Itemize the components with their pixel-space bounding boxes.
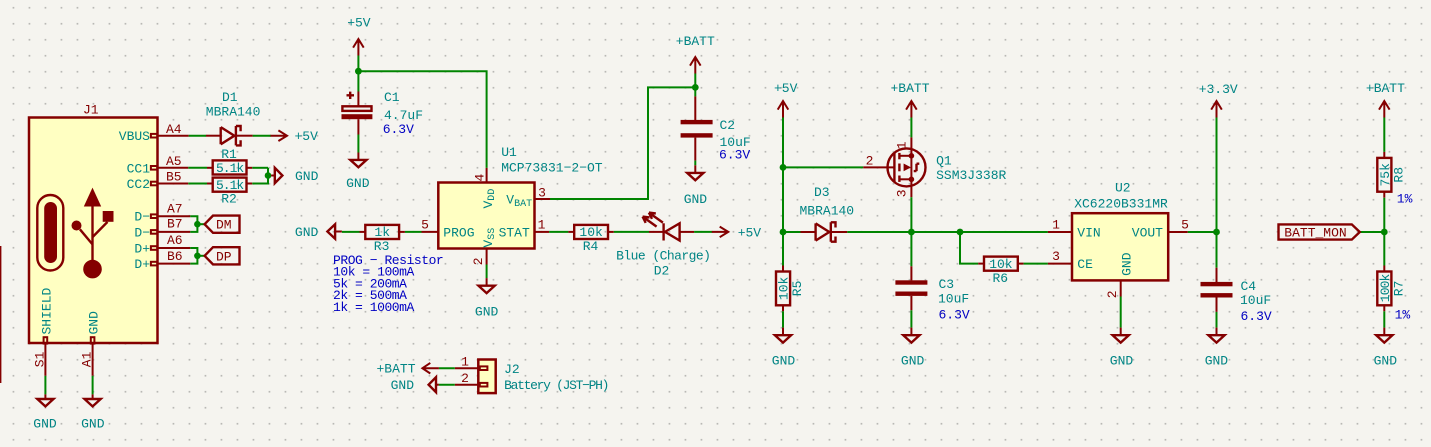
svg-text:GND: GND — [295, 169, 319, 184]
wire Q1 source to rail — [910, 197, 912, 232]
svg-text:R4: R4 — [583, 239, 599, 254]
svg-text:VBUS: VBUS — [119, 129, 150, 144]
resistor R6 10k — [978, 257, 1023, 286]
svg-text:DM: DM — [216, 218, 232, 233]
power +BATT (above R8) — [1366, 81, 1405, 117]
wire A1 to ground — [92, 376, 94, 395]
svg-text:+BATT: +BATT — [376, 362, 415, 377]
svg-text:R2: R2 — [221, 192, 237, 207]
svg-text:R3: R3 — [374, 239, 390, 254]
power +5V (right of D1) — [271, 129, 319, 144]
wire D1 to +5V — [253, 135, 271, 137]
svg-text:PROG: PROG — [443, 225, 474, 240]
svg-text:10uF: 10uF — [938, 292, 969, 307]
pin 1 STAT — [535, 231, 550, 233]
power +3.3V — [1199, 82, 1238, 117]
global label DM — [205, 216, 240, 233]
hierarchical label BATT_MON — [1279, 224, 1360, 240]
svg-text:C1: C1 — [384, 90, 400, 105]
svg-text:A4: A4 — [166, 122, 182, 137]
svg-text:GND: GND — [684, 192, 708, 207]
pin 2 — [480, 383, 488, 387]
wire R3 to U1 PROG — [405, 231, 422, 233]
svg-text:+5V: +5V — [295, 129, 319, 144]
power +5V (above D3) — [774, 81, 798, 117]
svg-text:C3: C3 — [939, 277, 955, 292]
junction gate — [780, 164, 787, 171]
wire junction to C4 — [1216, 232, 1218, 268]
svg-text:+5V: +5V — [774, 81, 798, 96]
svg-text:C4: C4 — [1241, 279, 1257, 294]
wire J2 pin1 — [439, 367, 455, 369]
wire +5V down to junction — [357, 56, 359, 92]
svg-text:6.3V: 6.3V — [1241, 309, 1272, 324]
svg-text:D3: D3 — [814, 185, 830, 200]
svg-text:Blue (Charge): Blue (Charge) — [616, 248, 710, 263]
wire C4 to ground — [1216, 312, 1218, 328]
svg-text:XC6220B331MR: XC6220B331MR — [1074, 196, 1168, 211]
svg-text:1: 1 — [538, 217, 546, 232]
svg-text:MBRA140: MBRA140 — [800, 203, 855, 218]
resistor R2 5.1k — [207, 178, 252, 207]
pin SHIELD S1 — [44, 337, 48, 343]
resistor R4 10k — [568, 225, 613, 254]
junction C2/+BATT — [692, 84, 699, 91]
ground (left of R3, PROG net) — [295, 224, 342, 240]
wire rail to U1 VIN — [960, 231, 1048, 233]
wire U1 STAT to R4 — [549, 231, 568, 233]
svg-text:A1: A1 — [80, 351, 95, 367]
svg-text:2: 2 — [471, 257, 486, 265]
pin D+ A6 — [151, 246, 157, 250]
svg-text:3: 3 — [1052, 249, 1060, 264]
svg-text:10k: 10k — [989, 257, 1013, 272]
wire R5 to ground — [782, 311, 784, 327]
junction C1/+5V — [355, 68, 362, 75]
svg-text:10uF: 10uF — [1240, 293, 1271, 308]
svg-text:D+: D+ — [134, 257, 150, 272]
wire D3 to Q1/C3 — [847, 231, 960, 233]
svg-text:MBRA140: MBRA140 — [206, 104, 261, 119]
svg-text:CC2: CC2 — [127, 177, 150, 192]
svg-text:S1: S1 — [32, 351, 47, 367]
wire A6 to DP — [190, 248, 197, 264]
pin D+ B6 — [151, 262, 157, 266]
svg-text:GND: GND — [81, 417, 105, 432]
wire DM stub — [197, 223, 204, 225]
svg-text:DP: DP — [216, 249, 232, 264]
wire +BATT to Q1 drain — [910, 118, 912, 138]
svg-text:GND: GND — [346, 176, 370, 191]
diode D3 MBRA140 — [800, 185, 855, 242]
pin 3 CE — [1048, 263, 1072, 265]
pin 4 VDD — [486, 168, 488, 183]
pin 5 VOUT — [1168, 231, 1188, 233]
resistor R7 100k — [1377, 266, 1410, 323]
power +BATT (above C2) — [676, 34, 715, 74]
svg-text:2: 2 — [461, 371, 469, 386]
pin 5 PROG — [422, 231, 439, 233]
svg-text:GND: GND — [1110, 353, 1134, 368]
sheet frame edge — [0, 246, 2, 383]
pin 3 VBAT — [535, 198, 551, 200]
transistor Q1 SSM3J338R — [863, 137, 1006, 197]
pin GND A1 — [91, 337, 95, 343]
wire junction to U1 VDD — [358, 71, 486, 168]
junction rail CE branch — [957, 229, 964, 236]
ground (U1 VSS) — [475, 278, 499, 319]
wire VBUS to D1 — [189, 135, 206, 137]
pin 1 VIN — [1048, 231, 1072, 233]
junction rail Q1 — [908, 229, 915, 236]
wire C1 to ground — [357, 135, 359, 153]
wire CC2 to R2 — [188, 183, 207, 185]
svg-text:Q1: Q1 — [936, 153, 952, 168]
pin D- B7 — [151, 230, 157, 234]
ground (U2) — [1110, 328, 1134, 369]
svg-text:B5: B5 — [166, 170, 182, 185]
svg-text:1: 1 — [895, 141, 910, 149]
svg-text:+5V: +5V — [347, 15, 371, 30]
global label DP — [205, 247, 240, 264]
wire gnd to R3 — [342, 231, 360, 233]
svg-text:U1: U1 — [501, 145, 517, 160]
resistor R8 75k — [1377, 152, 1412, 207]
junction R1R2 gnd — [265, 172, 272, 179]
svg-text:+5V: +5V — [738, 225, 762, 240]
svg-text:3: 3 — [538, 186, 546, 201]
ground (C1) — [346, 153, 370, 192]
svg-text:4: 4 — [473, 174, 488, 182]
svg-text:SHIELD: SHIELD — [40, 287, 55, 334]
capacitor C1 4.7uF polarized — [342, 90, 424, 137]
capacitor C3 10uF — [895, 266, 970, 322]
wire D2 to +5V — [694, 231, 712, 233]
USB icon trident — [84, 188, 101, 207]
wire R6 to U2 CE — [1024, 263, 1048, 265]
svg-text:STAT: STAT — [499, 225, 530, 240]
svg-text:Battery (JST−PH): Battery (JST−PH) — [504, 378, 608, 393]
wire R1 to gnd elbow — [252, 167, 268, 169]
pin CC2 B5 — [151, 182, 157, 186]
wire +3.3V down to junction — [1216, 118, 1218, 233]
svg-text:+BATT: +BATT — [1366, 81, 1405, 96]
wire junction to U1 VBAT — [550, 87, 695, 199]
svg-text:C2: C2 — [720, 118, 736, 133]
svg-text:+3.3V: +3.3V — [1199, 82, 1238, 97]
svg-text:D2: D2 — [654, 263, 670, 278]
wire A7 to DM — [190, 216, 197, 232]
wire BATT_MON stub — [1360, 231, 1385, 233]
capacitor C4 10uF — [1201, 268, 1272, 324]
wire +BATT to junction — [694, 74, 696, 97]
resistor R5 10k — [776, 266, 805, 312]
power +5V (top left rail) — [347, 15, 371, 55]
svg-text:GND: GND — [33, 417, 57, 432]
svg-text:B6: B6 — [167, 249, 183, 264]
wire J2 pin2 — [439, 384, 455, 386]
svg-text:R6: R6 — [992, 271, 1008, 286]
resistor R1 5.1k — [207, 147, 252, 176]
svg-text:GND: GND — [1374, 353, 1398, 368]
power +5V (right of D2) — [712, 225, 762, 240]
svg-text:R8: R8 — [1391, 167, 1406, 183]
wire C3 to ground — [910, 310, 912, 327]
pin D- A7 — [151, 214, 157, 218]
svg-text:GND: GND — [1119, 252, 1134, 276]
svg-text:VIN: VIN — [1077, 225, 1100, 240]
wire CC1 to R1 — [188, 167, 207, 169]
svg-text:BATT_MON: BATT_MON — [1284, 225, 1346, 240]
ground (C4) — [1205, 328, 1229, 369]
pin 1 — [480, 366, 488, 370]
svg-text:D−: D− — [134, 210, 150, 225]
connector J1 (USB) — [29, 103, 190, 376]
ground (C3) — [901, 328, 925, 369]
svg-text:1: 1 — [461, 354, 469, 369]
svg-text:CC1: CC1 — [127, 161, 151, 176]
svg-text:GND: GND — [772, 353, 796, 368]
junction rail R5 — [780, 229, 787, 236]
ground (A1) — [81, 394, 105, 431]
svg-text:GND: GND — [475, 304, 499, 319]
svg-text:D+: D+ — [134, 242, 150, 257]
ground (right of R1R2) — [268, 168, 319, 184]
svg-text:6.3V: 6.3V — [939, 307, 970, 322]
svg-text:+BATT: +BATT — [676, 34, 715, 49]
power +BATT (above Q1) — [890, 81, 929, 117]
ground (R7) — [1374, 328, 1398, 369]
svg-text:1k = 1000mA: 1k = 1000mA — [333, 300, 415, 315]
diode D1 MBRA140 — [206, 90, 261, 145]
svg-text:6.3V: 6.3V — [719, 148, 750, 163]
wire +5V down rail — [782, 118, 784, 233]
ground (J2 pin2, pointing left) — [391, 377, 439, 393]
svg-text:1%: 1% — [1397, 192, 1413, 207]
svg-text:VOUT: VOUT — [1132, 225, 1163, 240]
junction DM — [194, 221, 201, 228]
svg-text:D−: D− — [134, 225, 150, 240]
wire S1 to ground — [44, 376, 46, 395]
svg-text:SSM3J338R: SSM3J338R — [936, 168, 1006, 183]
resistor R3 1k — [360, 225, 405, 254]
wire C2 to ground — [694, 161, 696, 166]
svg-text:R5: R5 — [790, 281, 805, 297]
svg-text:J2: J2 — [504, 362, 520, 377]
svg-text:U2: U2 — [1115, 181, 1131, 196]
wire U1 VSS to ground — [486, 265, 488, 279]
svg-text:MCP73831−2−OT: MCP73831−2−OT — [501, 161, 603, 176]
svg-text:1%: 1% — [1395, 308, 1411, 323]
svg-text:A6: A6 — [167, 233, 183, 248]
capacitor C2 10uF — [681, 96, 751, 162]
LED D2 Blue (Charge) — [616, 213, 710, 279]
svg-text:5.1k: 5.1k — [216, 161, 244, 176]
svg-text:CE: CE — [1077, 257, 1093, 272]
svg-text:R7: R7 — [1391, 281, 1406, 297]
svg-text:5: 5 — [421, 217, 429, 232]
svg-text:4.7uF: 4.7uF — [384, 108, 423, 123]
svg-text:A5: A5 — [166, 154, 182, 169]
svg-text:2: 2 — [866, 154, 874, 169]
svg-text:GND: GND — [901, 353, 925, 368]
svg-text:5: 5 — [1181, 218, 1189, 233]
svg-text:D1: D1 — [222, 90, 238, 105]
USB icon receptacle pill — [37, 195, 63, 271]
wire gate — [783, 166, 863, 168]
svg-text:A7: A7 — [167, 201, 183, 216]
junction DP — [194, 253, 201, 260]
wire rail to D3 — [783, 231, 801, 233]
svg-text:B7: B7 — [167, 217, 183, 232]
svg-text:+BATT: +BATT — [890, 81, 929, 96]
wire R4 to D2 — [614, 231, 649, 233]
svg-text:6.3V: 6.3V — [383, 122, 414, 137]
power +BATT (J2 pin1, pointing left) — [376, 362, 438, 377]
svg-text:GND: GND — [391, 378, 415, 393]
wire CE branch — [960, 232, 978, 264]
connector J2 Battery — [455, 354, 608, 393]
svg-text:2: 2 — [1105, 290, 1120, 298]
wire VOUT to +3.3V rail — [1188, 231, 1217, 233]
note PROG resistor table — [333, 253, 443, 315]
svg-text:GND: GND — [87, 311, 102, 335]
wire U2 GND to ground — [1120, 297, 1122, 328]
pin VBUS A4 — [151, 134, 157, 138]
wire R2/R1 join — [252, 168, 268, 184]
wire R7 to ground — [1383, 311, 1385, 327]
svg-text:GND: GND — [295, 225, 319, 240]
pin 2 GND — [1120, 280, 1122, 296]
wire R8 to junction — [1383, 198, 1385, 266]
pin CC1 A5 — [151, 166, 157, 170]
svg-text:GND: GND — [1205, 353, 1229, 368]
wire +BATT to R8 — [1383, 118, 1385, 152]
junction VOUT rail — [1213, 229, 1220, 236]
junction BATT_MON — [1381, 229, 1388, 236]
wire DP stub — [197, 255, 204, 257]
svg-text:J1: J1 — [83, 103, 99, 118]
ground (S1) — [33, 394, 57, 431]
wire rail to C3 — [910, 232, 912, 266]
IC U1 MCP73831-2-OT — [421, 145, 603, 265]
svg-text:3: 3 — [895, 189, 910, 197]
ground (R5) — [772, 328, 796, 369]
IC U2 XC6220B331MR — [1048, 181, 1189, 299]
svg-text:R1: R1 — [221, 147, 237, 162]
pin 2 VSS — [486, 249, 488, 265]
ground (C2) — [684, 165, 708, 207]
svg-text:1: 1 — [1052, 218, 1060, 233]
